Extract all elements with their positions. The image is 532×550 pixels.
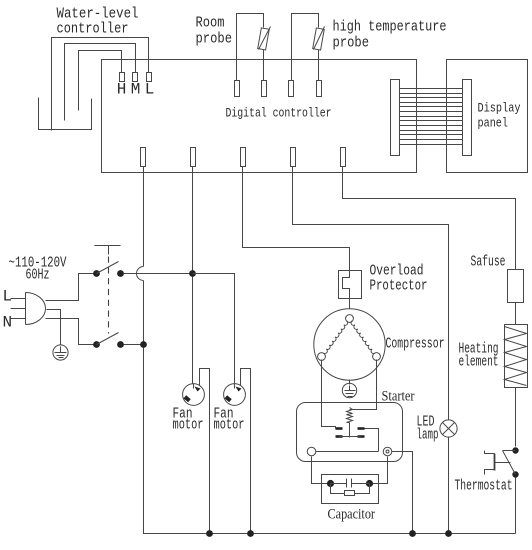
relay contact left top bbox=[336, 427, 343, 430]
junction fan1 return bus bbox=[206, 530, 213, 537]
bleed resistor R2 bbox=[331, 484, 345, 494]
wire T5 to safuse bbox=[343, 173, 516, 270]
wire high temp probe to pin bbox=[318, 50, 320, 81]
svg-text:Room: Room bbox=[196, 15, 225, 32]
junction T2/L bbox=[189, 270, 196, 277]
svg-text:panel: panel bbox=[478, 116, 509, 131]
starter terminal 1 bbox=[307, 447, 316, 456]
svg-text:motor: motor bbox=[214, 417, 245, 434]
wire right contact to terminal bbox=[365, 429, 379, 452]
plug prong L bbox=[11, 298, 26, 300]
pin room probe B bbox=[262, 81, 267, 97]
junction fan2 return bus bbox=[247, 530, 254, 537]
plug prong E bbox=[11, 308, 26, 310]
wire safuse to heater bbox=[515, 303, 517, 325]
svg-text:H: H bbox=[117, 81, 127, 99]
svg-text:Capacitor: Capacitor bbox=[328, 507, 376, 523]
wire room probe to pin bbox=[263, 50, 265, 81]
relay bridge bbox=[340, 436, 361, 438]
LED lamp DS1 bbox=[440, 420, 457, 437]
wire overload to compressor bbox=[349, 298, 351, 315]
pin high temp B bbox=[317, 81, 322, 97]
wire starter terminal link bbox=[316, 451, 379, 453]
svg-text:Digital controller: Digital controller bbox=[226, 107, 332, 121]
svg-text:L: L bbox=[145, 81, 155, 99]
terminal H bbox=[120, 73, 125, 82]
wire L line bbox=[124, 273, 193, 275]
wire hop over L line bbox=[137, 267, 144, 281]
svg-text:Compressor: Compressor bbox=[386, 336, 445, 353]
pin T1 digital controller bbox=[141, 148, 146, 167]
junction starter bus bbox=[409, 530, 416, 537]
earth ground symbol bbox=[53, 345, 68, 360]
svg-text:Thermostat: Thermostat bbox=[455, 478, 513, 495]
digital controller U1 bbox=[102, 60, 417, 173]
wire L to fan motor 2 bbox=[193, 274, 235, 385]
ribbon connector left bbox=[391, 80, 400, 156]
relay contact right bottom bbox=[358, 435, 365, 438]
wire T1 to neutral bus bbox=[143, 173, 145, 267]
switch S1b lower pole bbox=[93, 341, 100, 348]
svg-text:60Hz: 60Hz bbox=[26, 267, 50, 284]
thermostat S2 bbox=[512, 447, 518, 453]
svg-text:motor: motor bbox=[173, 417, 204, 434]
wire L probe bbox=[52, 38, 149, 131]
wire heater to thermostat bbox=[515, 388, 517, 447]
terminal L bbox=[147, 73, 152, 82]
wire PTC to contact bridge bbox=[349, 423, 351, 438]
svg-text:L: L bbox=[3, 288, 13, 306]
switch S1a upper pole bbox=[93, 270, 100, 277]
svg-text:Protector: Protector bbox=[370, 278, 428, 295]
svg-text:lamp: lamp bbox=[417, 427, 439, 444]
junction N bus bbox=[140, 341, 147, 348]
wire room probe loop bbox=[237, 14, 264, 81]
wire fan motor 1 return bbox=[200, 369, 210, 534]
relay contact right top bbox=[358, 427, 365, 430]
wire starter to bus bbox=[392, 452, 413, 534]
wire compressor M to starter PTC bbox=[350, 360, 377, 410]
starter terminal 2 bbox=[383, 447, 392, 456]
compressor motor bbox=[314, 309, 385, 380]
capacitor box bbox=[322, 475, 379, 504]
pin T3 digital controller bbox=[241, 148, 246, 167]
plug prong N bbox=[11, 318, 26, 320]
fan motor M2 bbox=[224, 384, 246, 406]
ribbon connector right bbox=[463, 80, 472, 156]
switch actuator bar bbox=[95, 246, 121, 255]
ribbon cable wires bbox=[400, 88, 463, 90]
switch link dashed bbox=[108, 257, 110, 334]
wire T1 lower segment bbox=[144, 281, 516, 534]
junction LED bus bbox=[445, 530, 452, 537]
wire plug L to switch bbox=[46, 274, 94, 301]
pin T4 digital controller bbox=[291, 148, 296, 167]
wire compressor S to starter bbox=[322, 360, 336, 429]
svg-text:Display: Display bbox=[478, 101, 521, 116]
capacitor C1 bbox=[331, 483, 347, 485]
pin room probe A bbox=[235, 81, 240, 97]
wire plug earth bbox=[47, 310, 61, 345]
wire plug N to switch bbox=[46, 319, 94, 345]
svg-text:Safuse: Safuse bbox=[471, 254, 506, 271]
wire fan motor 2 return bbox=[241, 369, 251, 534]
wire T4 to LED lamp bbox=[293, 173, 449, 420]
wire starter t1 to capacitor bbox=[312, 457, 328, 484]
svg-text:probe: probe bbox=[196, 31, 233, 48]
svg-text:controller: controller bbox=[57, 21, 129, 38]
junction capacitor right bbox=[366, 480, 373, 487]
plug P1 bbox=[26, 293, 46, 325]
svg-text:probe: probe bbox=[333, 35, 370, 52]
fan motor M1 bbox=[183, 384, 205, 406]
heating element R3 bbox=[505, 325, 528, 388]
overload protector F1 bbox=[339, 271, 362, 299]
wire starter t2 to capacitor bbox=[373, 457, 388, 484]
pin T5 digital controller bbox=[341, 148, 346, 167]
wire T3 to overload bbox=[243, 173, 350, 271]
starter PTC resistor R1 bbox=[347, 408, 353, 423]
pin high temp A bbox=[289, 81, 294, 97]
relay contact left bottom bbox=[336, 435, 343, 438]
wire thermostat to bus bbox=[515, 478, 517, 534]
svg-text:N: N bbox=[3, 314, 13, 332]
wire T2 to fan motor 1 bbox=[192, 173, 194, 385]
svg-text:element: element bbox=[459, 354, 499, 371]
wire high temp probe loop bbox=[292, 14, 319, 81]
junction capacitor left bbox=[327, 480, 334, 487]
display panel bbox=[447, 60, 528, 173]
wire M probe bbox=[65, 44, 136, 121]
high temp probe sensor RT2 bbox=[313, 28, 325, 50]
wire N to bus line bbox=[124, 344, 144, 346]
safuse F2 bbox=[508, 270, 524, 303]
wire H probe bbox=[79, 51, 122, 111]
terminal M bbox=[133, 73, 138, 82]
svg-text:high temperature: high temperature bbox=[333, 19, 447, 36]
starter box bbox=[297, 403, 403, 462]
wire LED to bus bbox=[448, 437, 450, 534]
pin T2 digital controller bbox=[191, 148, 196, 167]
svg-text:M: M bbox=[131, 81, 141, 99]
tank (water-level controller) bbox=[39, 98, 92, 130]
compressor ground bbox=[349, 380, 351, 385]
room probe sensor RT1 bbox=[258, 28, 270, 50]
